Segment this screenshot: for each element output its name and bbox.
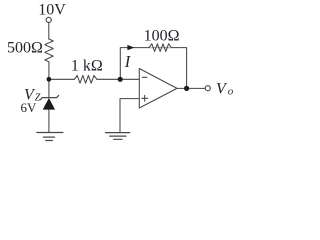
svg-text:10V: 10V — [38, 2, 66, 19]
svg-text:6V: 6V — [21, 100, 38, 115]
svg-text:o: o — [228, 85, 234, 97]
svg-text:1 kΩ: 1 kΩ — [71, 57, 103, 74]
svg-text:100Ω: 100Ω — [144, 27, 180, 44]
svg-text:V: V — [216, 80, 228, 97]
svg-text:I: I — [124, 52, 132, 71]
svg-text:500Ω: 500Ω — [7, 39, 43, 56]
